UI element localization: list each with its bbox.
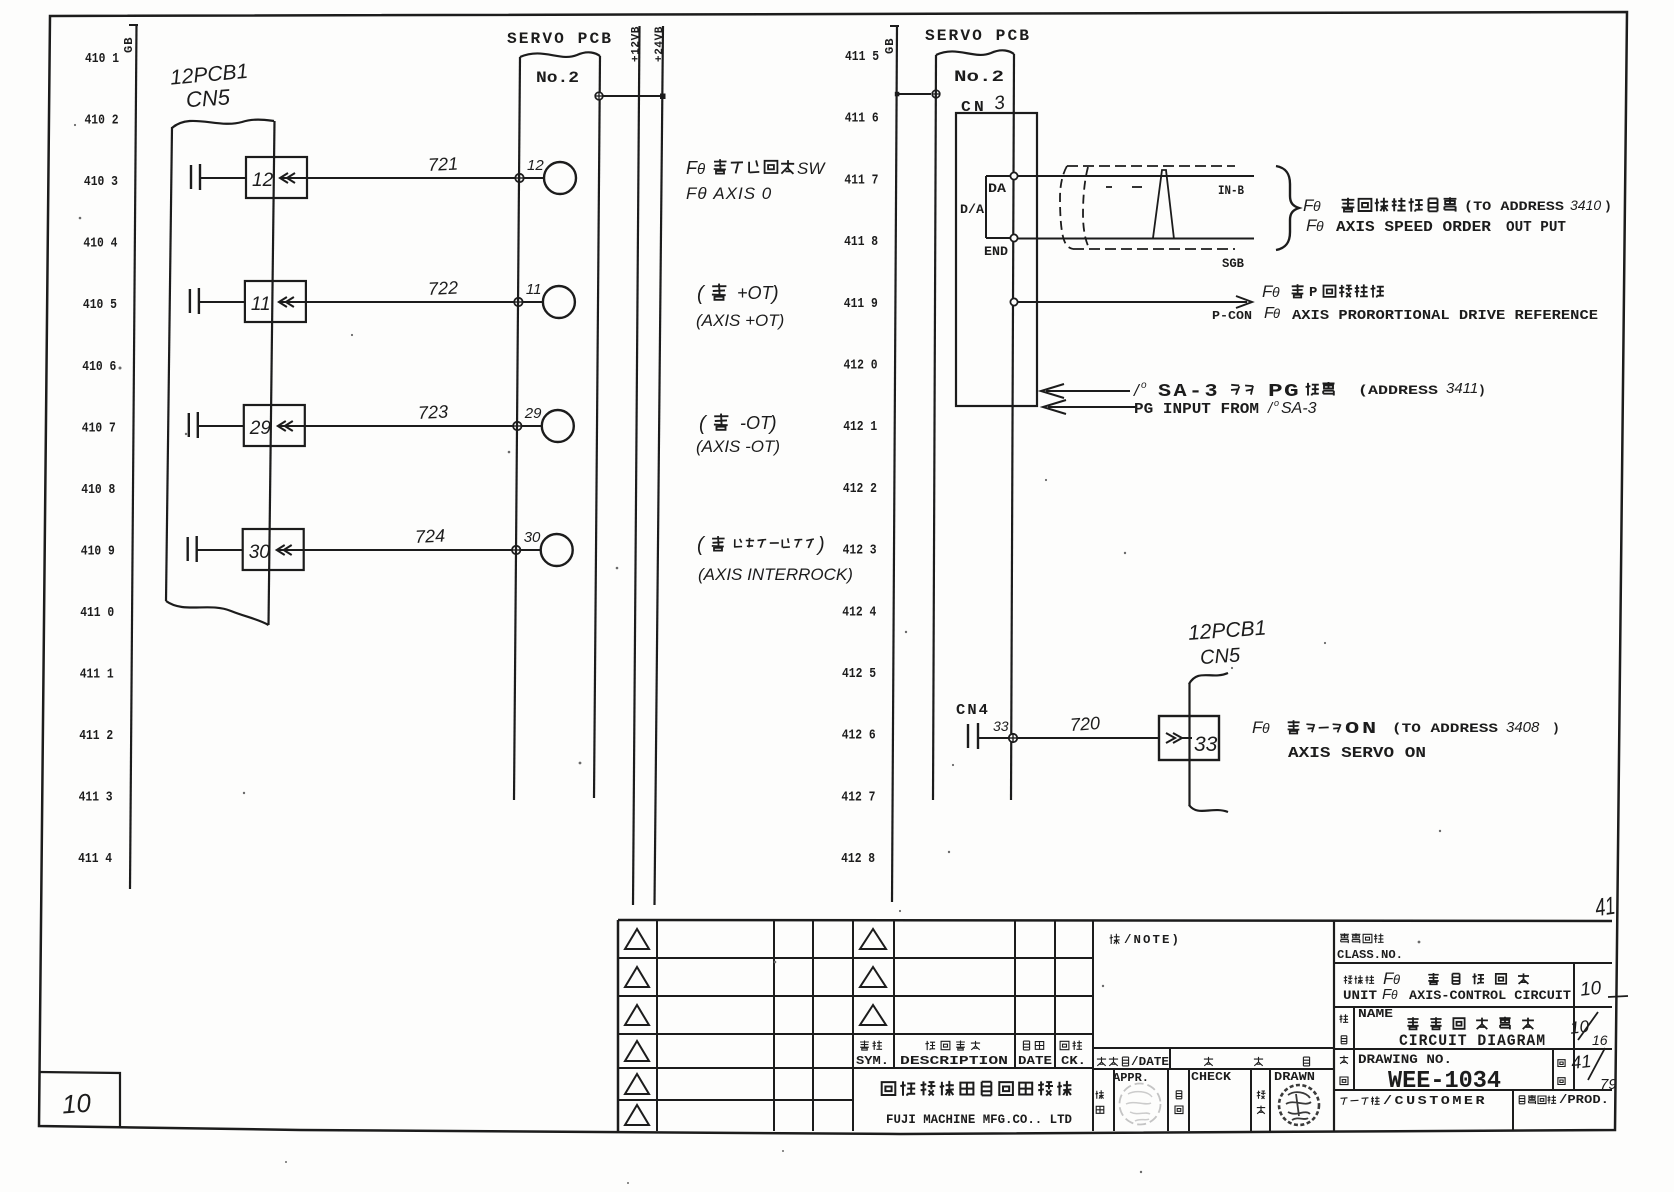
svg-text:CN4: CN4: [956, 702, 990, 719]
svg-text:(TO ADDRESS: (TO ADDRESS: [1464, 199, 1564, 214]
svg-text:30: 30: [524, 529, 541, 546]
connector CN5 block (12PCB1): [166, 120, 275, 625]
label DRAWN: [1274, 1070, 1315, 1084]
svg-text:FUJI MACHINE MFG.CO.. LTD: FUJI MACHINE MFG.CO.. LTD: [886, 1113, 1072, 1127]
label APPR: [1113, 1071, 1149, 1085]
svg-text:): ): [770, 283, 779, 305]
page number box: [39, 1072, 120, 1126]
wire 721: [281, 153, 520, 178]
junction (servo pin 12): [515, 174, 523, 182]
svg-text:Fθ AXIS 0: Fθ AXIS 0: [686, 184, 772, 203]
svg-text:723: 723: [418, 401, 449, 423]
junction on servo edge (right): [932, 90, 940, 98]
svg-text:SGB: SGB: [1222, 256, 1244, 271]
svg-text:410 4: 410 4: [83, 237, 117, 252]
svg-text:410 6: 410 6: [82, 360, 116, 375]
svg-text:/NOTE): /NOTE): [1124, 933, 1181, 947]
svg-text:-OT: -OT: [740, 413, 773, 433]
wire 720: [1069, 713, 1100, 735]
svg-text:(ADDRESS: (ADDRESS: [1358, 383, 1438, 398]
svg-text:410 2: 410 2: [85, 114, 119, 129]
arrow into pin 11: [279, 297, 294, 307]
class number cell: [1337, 933, 1403, 962]
svg-text:AXIS SPEED ORDER: AXIS SPEED ORDER: [1336, 220, 1491, 236]
wire 722: [280, 277, 519, 302]
header DATE: [1018, 1041, 1052, 1068]
svg-text:ON: ON: [1345, 720, 1379, 739]
pad circle pin 29: [521, 405, 574, 442]
contact 11 (CN5 pin 11): [190, 281, 306, 322]
svg-text:CHECK: CHECK: [1191, 1070, 1232, 1084]
svg-text:θ: θ: [1262, 720, 1270, 736]
svg-text:412 3: 412 3: [843, 544, 877, 559]
power rail +24VB: [654, 26, 666, 905]
svg-text:SA-3: SA-3: [1158, 382, 1220, 402]
svg-text:OUT PUT: OUT PUT: [1506, 220, 1566, 236]
svg-text:NAME: NAME: [1358, 1007, 1393, 1021]
line numbers 4115-4128: [841, 50, 879, 867]
arrow into pin 12: [280, 173, 295, 183]
svg-text:(AXIS INTERROCK): (AXIS INTERROCK): [698, 565, 853, 584]
svg-text:DRAWN: DRAWN: [1274, 1070, 1315, 1084]
svg-text:411 3: 411 3: [79, 791, 113, 806]
svg-text:): ): [768, 413, 777, 435]
svg-text:410 5: 410 5: [83, 298, 117, 313]
svg-text:412 0: 412 0: [844, 359, 878, 374]
svg-text:): ): [1478, 383, 1486, 398]
svg-text:DATE: DATE: [1018, 1055, 1052, 1068]
svg-text:θ: θ: [1316, 218, 1324, 234]
svg-text:29: 29: [249, 418, 272, 439]
svg-text:APPR.: APPR.: [1113, 1071, 1149, 1085]
wire GB to servo block (right): [895, 92, 931, 97]
svg-text:(AXIS +OT): (AXIS +OT): [696, 311, 784, 330]
title block grid: [618, 920, 1612, 1131]
svg-text:412 8: 412 8: [841, 852, 875, 867]
pad circle pin 30: [520, 529, 573, 566]
shield (dashed): [1060, 166, 1235, 249]
svg-text:WEE-1034: WEE-1034: [1388, 1068, 1501, 1095]
svg-text:410 9: 410 9: [81, 544, 115, 559]
label CN4: [956, 702, 990, 719]
svg-text:END: END: [984, 245, 1009, 259]
svg-text:AXIS SERVO ON: AXIS SERVO ON: [1288, 746, 1426, 762]
svg-text:411 9: 411 9: [844, 297, 878, 312]
revision triangles column A: [625, 929, 649, 1125]
svg-text:(AXIS -OT): (AXIS -OT): [696, 437, 780, 456]
connector box pin 33 (12PCB1 CN5): [1159, 716, 1219, 760]
svg-text:DA: DA: [988, 182, 1007, 196]
svg-text:θ: θ: [1393, 972, 1400, 987]
junction (servo pin 29): [513, 422, 521, 430]
svg-text:No.2: No.2: [536, 69, 579, 87]
svg-text:θ: θ: [1273, 306, 1280, 321]
svg-text:10: 10: [61, 1088, 92, 1120]
name cell: [1340, 1007, 1608, 1050]
svg-text:SERVO PCB: SERVO PCB: [925, 27, 1031, 45]
svg-text:410 8: 410 8: [81, 483, 115, 498]
svg-text:411 7: 411 7: [844, 173, 878, 188]
svg-text:PG INPUT FROM: PG INPUT FROM: [1134, 402, 1259, 418]
label CHECK: [1191, 1070, 1232, 1084]
svg-text:DRAWING NO.: DRAWING NO.: [1358, 1052, 1452, 1067]
svg-text:): ): [1552, 721, 1560, 736]
svg-text:411 1: 411 1: [80, 668, 114, 683]
svg-text:+OT: +OT: [737, 283, 775, 303]
svg-text:No.2: No.2: [954, 68, 1004, 86]
header CK: [1060, 1041, 1086, 1069]
junction (servo pin 11): [514, 298, 522, 306]
svg-text:o: o: [1141, 380, 1147, 391]
svg-text:33: 33: [1194, 733, 1218, 756]
svg-text:θ: θ: [1313, 198, 1321, 214]
svg-text:P: P: [1309, 285, 1317, 301]
label P-CON: [1212, 309, 1252, 323]
svg-text:720: 720: [1069, 713, 1100, 735]
svg-text:79: 79: [1600, 1076, 1617, 1093]
contact 30 (CN5 pin 30): [188, 529, 304, 570]
label 12PCB1 (CN5): [169, 60, 249, 112]
note: PG input from SA-3: [1133, 380, 1486, 418]
svg-text:724: 724: [415, 525, 446, 547]
wire IN-B (DA out): [1018, 175, 1254, 177]
svg-text:CN5: CN5: [185, 84, 231, 112]
line numbers 4101-4114: [78, 52, 119, 867]
svg-text:411 8: 411 8: [844, 235, 878, 250]
svg-text:12: 12: [527, 157, 544, 174]
svg-text:(TO ADDRESS: (TO ADDRESS: [1392, 721, 1498, 736]
svg-text:/DATE: /DATE: [1131, 1056, 1169, 1069]
svg-text:SERVO PCB: SERVO PCB: [507, 30, 613, 48]
svg-text:AXIS-CONTROL CIRCUIT: AXIS-CONTROL CIRCUIT: [1409, 988, 1571, 1003]
servo PCB No.2 block (right): [933, 50, 1014, 800]
label CN3: [961, 92, 1007, 116]
svg-text:411 5: 411 5: [845, 50, 879, 65]
pin P-CON: [1010, 298, 1017, 305]
svg-text:o: o: [1274, 398, 1279, 408]
svg-text:33: 33: [993, 718, 1009, 734]
svg-text:DESCRIPTION: DESCRIPTION: [900, 1054, 1008, 1068]
stamp DRAWN: [1279, 1085, 1319, 1125]
label SERVO PCB (right): [925, 27, 1031, 45]
header SYM: [856, 1041, 889, 1069]
PG input arrow upper: [1041, 384, 1130, 398]
date row: [1097, 1056, 1310, 1069]
contact 12 (CN5 pin 12): [191, 157, 307, 198]
svg-text:412 2: 412 2: [843, 482, 877, 497]
power rail +12VB: [630, 26, 642, 905]
svg-text:3411: 3411: [1446, 380, 1478, 397]
junction to power rails (left): [595, 92, 665, 100]
svg-text:SW: SW: [797, 159, 826, 178]
junction CN4 on servo edge: [1009, 734, 1017, 742]
pin DA: [1010, 172, 1017, 179]
svg-text:/PROD.: /PROD.: [1559, 1093, 1609, 1107]
svg-text:41: 41: [1570, 1051, 1592, 1073]
svg-text:412 5: 412 5: [842, 667, 876, 682]
svg-text:722: 722: [428, 277, 459, 299]
svg-text:CK.: CK.: [1061, 1055, 1086, 1068]
connector CN3 box: [956, 113, 1037, 406]
svg-text:411 0: 411 0: [80, 606, 114, 621]
drawer col: [1257, 1091, 1266, 1114]
D/A converter bracket: [960, 176, 1011, 259]
svg-text:θ: θ: [697, 161, 705, 178]
svg-text:410 3: 410 3: [84, 175, 118, 190]
servo PCB No.2 block (left): [514, 52, 600, 800]
svg-text:GB: GB: [883, 38, 897, 54]
svg-text:+24VB: +24VB: [654, 26, 666, 62]
svg-text:IN-B: IN-B: [1218, 183, 1244, 198]
arrow into pin 30: [277, 545, 292, 555]
svg-text:410 1: 410 1: [85, 52, 119, 67]
svg-text:16: 16: [1592, 1032, 1608, 1048]
note: axis -OT: [696, 413, 780, 456]
wire 723: [279, 401, 518, 426]
label No.2 (left): [536, 69, 579, 87]
note: F-theta axis zero set SW: [686, 158, 826, 203]
wire 724: [278, 525, 517, 550]
svg-text:411 2: 411 2: [79, 729, 113, 744]
stub line CN5 (bottom right): [1189, 673, 1228, 812]
note header: [1110, 933, 1181, 947]
header DESCRIPTION: [900, 1041, 1008, 1069]
svg-text:11: 11: [526, 281, 542, 298]
svg-text:/CUSTOMER: /CUSTOMER: [1383, 1094, 1487, 1108]
approver col: [1096, 1090, 1104, 1113]
svg-text:CLASS.NO.: CLASS.NO.: [1337, 948, 1403, 962]
svg-text:UNIT: UNIT: [1343, 989, 1378, 1003]
svg-text:AXIS PRORORTIONAL DRIVE REFERE: AXIS PRORORTIONAL DRIVE REFERENCE: [1292, 308, 1598, 324]
company name: [882, 1081, 1073, 1127]
svg-text:412 1: 412 1: [843, 420, 877, 435]
pin END: [1010, 234, 1017, 241]
label IN-B: [1218, 183, 1244, 198]
note: axis speed order output: [1303, 196, 1612, 236]
pulse waveform: [1106, 170, 1174, 239]
svg-text:GB: GB: [122, 37, 136, 53]
contact CN4 pin 33: [968, 718, 1159, 749]
pad circle pin 11: [522, 281, 575, 318]
svg-text:θ: θ: [1391, 988, 1398, 1002]
svg-text:CIRCUIT DIAGRAM: CIRCUIT DIAGRAM: [1399, 1032, 1546, 1050]
contact 29 (CN5 pin 29): [189, 405, 305, 446]
checker col: [1175, 1091, 1183, 1114]
label SGB: [1222, 256, 1244, 271]
svg-text:10: 10: [1579, 978, 1603, 1001]
junction (servo pin 30): [512, 546, 520, 554]
svg-text:29: 29: [524, 405, 542, 422]
svg-text:): ): [816, 534, 825, 556]
svg-text:411 6: 411 6: [845, 112, 879, 127]
customer cell: [1341, 1093, 1610, 1108]
PG input arrow lower: [1043, 400, 1136, 414]
svg-text:θ: θ: [1272, 284, 1280, 300]
sheet number 41: [1593, 892, 1617, 923]
svg-text:12: 12: [252, 170, 274, 191]
wire SGB (END out): [1018, 238, 1254, 240]
unit cell: [1343, 969, 1628, 1003]
label 12PCB1 CN5 (bottom right): [1187, 616, 1267, 669]
svg-text:410 7: 410 7: [82, 421, 116, 436]
svg-text:+12VB: +12VB: [630, 26, 642, 62]
label SERVO PCB (left): [507, 30, 613, 48]
revision triangles column B: [860, 929, 886, 1025]
svg-text:30: 30: [249, 542, 271, 563]
bus GB (right): [883, 26, 899, 902]
svg-text:D/A: D/A: [960, 202, 984, 217]
stamp APPR: [1120, 1084, 1161, 1125]
arrow into pin 29: [278, 421, 293, 431]
note: axis P motion order: [1262, 282, 1598, 324]
svg-text:412 7: 412 7: [841, 790, 875, 805]
svg-text:721: 721: [428, 153, 459, 175]
svg-text:11: 11: [251, 294, 271, 315]
note: axis servo ON: [1252, 718, 1560, 762]
pad circle pin 12: [523, 157, 576, 194]
drawing number cell: [1340, 1048, 1618, 1095]
bus GB (left): [122, 25, 138, 889]
brace: [1276, 166, 1299, 250]
svg-text:412 4: 412 4: [842, 605, 876, 620]
svg-text:P-CON: P-CON: [1212, 309, 1252, 323]
wire P-CON: [1018, 296, 1252, 308]
svg-text:PG: PG: [1268, 382, 1300, 402]
svg-text:411 4: 411 4: [78, 852, 112, 867]
label No.2 (right): [954, 68, 1004, 86]
svg-text:): ): [1604, 199, 1612, 214]
note: axis +OT: [696, 283, 784, 330]
note: axis interlock: [697, 534, 853, 584]
svg-text:41: 41: [1593, 892, 1617, 923]
svg-text:SYM.: SYM.: [856, 1055, 889, 1068]
svg-text:3410: 3410: [1570, 197, 1601, 213]
svg-text:412 6: 412 6: [842, 729, 876, 744]
svg-text:CN5: CN5: [1199, 644, 1241, 669]
svg-text:SA-3: SA-3: [1281, 400, 1317, 417]
svg-text:3408: 3408: [1506, 719, 1540, 736]
